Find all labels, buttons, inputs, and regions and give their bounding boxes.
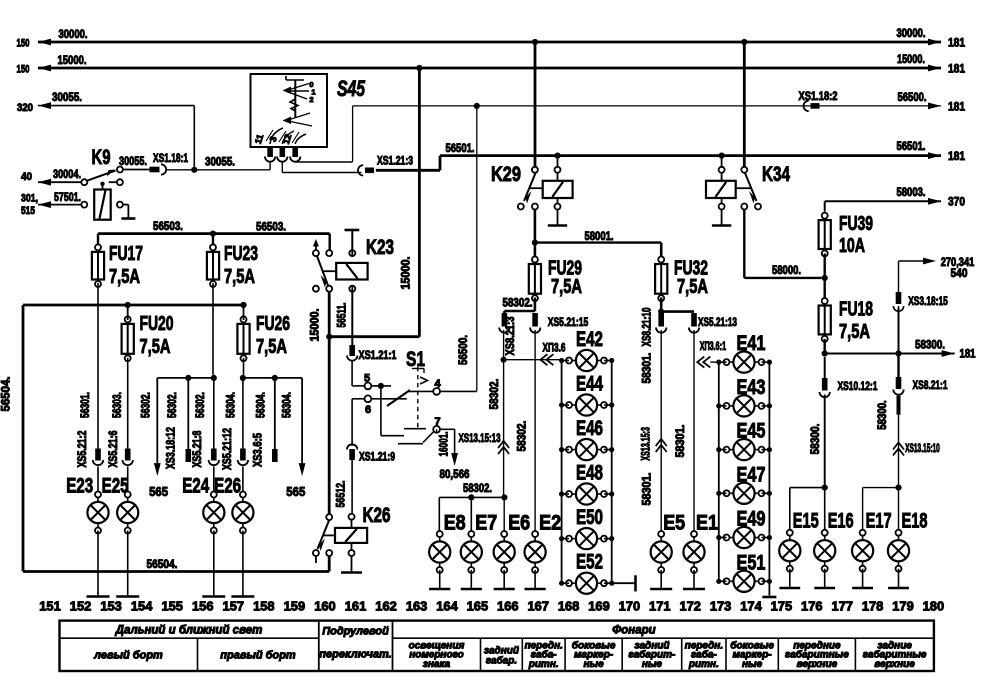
svg-text:Дальний и ближний свет: Дальний и ближний свет [115, 625, 263, 637]
svg-text:ные: ные [742, 659, 763, 670]
svg-text:58301.: 58301. [639, 473, 653, 506]
svg-text:174: 174 [740, 598, 762, 613]
svg-text:7,5A: 7,5A [839, 321, 870, 343]
svg-text:E43: E43 [737, 376, 766, 399]
svg-text:FU17: FU17 [109, 243, 143, 265]
svg-text:166: 166 [497, 598, 519, 613]
svg-text:58302.: 58302. [514, 421, 528, 452]
svg-text:E5: E5 [663, 512, 685, 535]
svg-text:ные: ные [584, 659, 605, 670]
svg-text:167: 167 [527, 598, 549, 613]
svg-text:Подрулевой: Подрулевой [322, 626, 389, 638]
svg-text:E49: E49 [737, 508, 766, 531]
svg-text:K34: K34 [762, 163, 790, 186]
svg-text:E48: E48 [576, 462, 603, 485]
svg-text:E41: E41 [737, 332, 766, 355]
svg-text:10A: 10A [839, 235, 865, 257]
svg-text:16001.: 16001. [437, 432, 451, 457]
svg-text:172: 172 [679, 598, 701, 613]
svg-text:540: 540 [951, 266, 968, 280]
svg-text:E16: E16 [828, 510, 854, 533]
svg-text:40: 40 [21, 171, 32, 183]
svg-text:XS1.18:2: XS1.18:2 [799, 89, 838, 103]
svg-text:56302.: 56302. [193, 392, 207, 418]
svg-text:E8: E8 [444, 512, 466, 535]
svg-text:56301.: 56301. [78, 392, 92, 418]
svg-text:158: 158 [253, 598, 275, 613]
svg-text:58000.: 58000. [772, 263, 801, 277]
svg-text:E24: E24 [182, 475, 209, 498]
svg-text:181: 181 [948, 100, 965, 114]
svg-text:7: 7 [434, 416, 440, 428]
svg-text:15000.: 15000. [58, 53, 87, 67]
svg-text:58300.: 58300. [915, 338, 945, 352]
svg-text:58301.: 58301. [673, 425, 687, 458]
svg-text:565: 565 [286, 484, 305, 499]
svg-text:E47: E47 [737, 463, 766, 486]
svg-text:E1: E1 [696, 512, 718, 535]
svg-text:E25: E25 [102, 475, 129, 498]
svg-text:171: 171 [649, 598, 671, 613]
svg-text:150: 150 [17, 64, 30, 76]
svg-text:301,: 301, [21, 193, 38, 205]
svg-text:K23: K23 [366, 236, 394, 259]
svg-text:E17: E17 [866, 510, 892, 533]
svg-text:155: 155 [161, 598, 183, 613]
svg-text:30055.: 30055. [119, 154, 147, 168]
svg-text:7,5A: 7,5A [677, 276, 708, 298]
svg-text:7,5A: 7,5A [551, 276, 582, 298]
svg-text:56500.: 56500. [456, 335, 470, 365]
svg-text:правый борт: правый борт [220, 650, 296, 662]
svg-text:320: 320 [17, 102, 33, 114]
svg-text:57501.: 57501. [54, 190, 81, 204]
svg-text:56302.: 56302. [139, 392, 153, 418]
svg-text:XS5.21:13: XS5.21:13 [698, 315, 737, 329]
svg-text:знака: знака [423, 659, 451, 670]
svg-text:159: 159 [284, 598, 306, 613]
svg-text:ритн.: ритн. [528, 659, 559, 670]
svg-text:56512.: 56512. [334, 481, 348, 508]
svg-text:163: 163 [406, 598, 428, 613]
svg-text:K29: K29 [491, 163, 521, 186]
svg-text:ХП3.6: ХП3.6 [543, 343, 566, 355]
svg-text:30000.: 30000. [897, 26, 926, 40]
svg-text:150: 150 [17, 38, 30, 50]
svg-text:175: 175 [771, 598, 793, 613]
svg-text:30055.: 30055. [52, 90, 82, 104]
svg-text:156: 156 [192, 598, 214, 613]
svg-text:2: 2 [309, 95, 313, 104]
svg-text:габар.: габар. [486, 655, 517, 667]
svg-text:FU39: FU39 [839, 213, 873, 235]
svg-text:XS10.12:1: XS10.12:1 [838, 379, 878, 393]
svg-text:верхние: верхние [797, 659, 838, 670]
svg-text:5: 5 [364, 373, 370, 385]
svg-text:E7: E7 [475, 512, 497, 535]
svg-text:58302.: 58302. [463, 481, 492, 495]
svg-text:E52: E52 [576, 551, 603, 574]
svg-text:30000.: 30000. [59, 27, 88, 41]
svg-text:56500.: 56500. [898, 90, 927, 104]
svg-text:56304.: 56304. [253, 392, 267, 418]
svg-text:XS1.21:1: XS1.21:1 [359, 348, 397, 362]
svg-text:169: 169 [588, 598, 610, 613]
svg-text:XS1.18:1: XS1.18:1 [153, 151, 188, 165]
svg-text:157: 157 [223, 598, 245, 613]
svg-text:15000.: 15000. [897, 52, 925, 66]
svg-text:164: 164 [436, 598, 458, 613]
svg-text:58301.: 58301. [639, 353, 653, 384]
svg-text:181: 181 [960, 347, 976, 361]
svg-text:XS5.21:6: XS5.21:6 [108, 431, 120, 468]
svg-text:XS5.21:12: XS5.21:12 [222, 428, 234, 470]
svg-text:FU23: FU23 [224, 243, 258, 265]
svg-text:176: 176 [801, 598, 823, 613]
svg-text:181: 181 [948, 62, 965, 76]
svg-text:XS8.21:1: XS8.21:1 [913, 378, 948, 392]
svg-text:E50: E50 [576, 506, 603, 529]
svg-text:56503.: 56503. [153, 219, 183, 233]
svg-text:58302.: 58302. [487, 379, 501, 410]
svg-text:58302.: 58302. [503, 296, 533, 310]
svg-text:56304.: 56304. [280, 392, 294, 418]
svg-text:XS1.21:9: XS1.21:9 [359, 450, 395, 464]
svg-text:левый борт: левый борт [93, 650, 163, 662]
svg-text:XS13.15:10: XS13.15:10 [905, 443, 940, 455]
svg-text:177: 177 [831, 598, 853, 613]
svg-text:E45: E45 [737, 420, 766, 443]
svg-text:168: 168 [558, 598, 580, 613]
svg-text:ные: ные [642, 659, 663, 670]
svg-text:S1: S1 [406, 348, 425, 371]
svg-text:E46: E46 [576, 417, 603, 440]
svg-text:80,566: 80,566 [440, 467, 470, 481]
svg-text:56303.: 56303. [110, 392, 124, 418]
svg-text:160: 160 [314, 598, 336, 613]
svg-text:370: 370 [948, 195, 965, 209]
svg-text:162: 162 [375, 598, 397, 613]
svg-text:15000.: 15000. [308, 309, 322, 342]
svg-text:565: 565 [149, 484, 168, 499]
svg-text:4: 4 [434, 378, 441, 390]
svg-text:178: 178 [862, 598, 884, 613]
svg-text:E51: E51 [737, 551, 766, 574]
svg-text:151: 151 [39, 598, 61, 613]
svg-text:6: 6 [365, 404, 371, 416]
svg-text:58001.: 58001. [585, 229, 614, 243]
svg-text:56302.: 56302. [165, 392, 179, 418]
svg-text:170: 170 [619, 598, 641, 613]
svg-text:30004.: 30004. [53, 167, 81, 181]
svg-text:161: 161 [345, 598, 367, 613]
svg-text:XS3.18:12: XS3.18:12 [166, 427, 178, 469]
svg-text:Фонари: Фонари [612, 625, 655, 637]
svg-text:XS8.21:10: XS8.21:10 [641, 308, 653, 347]
svg-text:XS5.21:8: XS5.21:8 [192, 430, 204, 467]
svg-text:E15: E15 [793, 510, 819, 533]
svg-text:56504.: 56504. [0, 377, 13, 412]
svg-text:56501.: 56501. [897, 139, 926, 153]
svg-text:XS5.21:2: XS5.21:2 [77, 431, 89, 468]
svg-text:FU18: FU18 [839, 299, 873, 321]
svg-text:173: 173 [710, 598, 732, 613]
svg-text:E42: E42 [576, 328, 603, 351]
svg-text:E26: E26 [214, 475, 241, 498]
svg-text:181: 181 [948, 36, 965, 50]
svg-text:153: 153 [100, 598, 122, 613]
svg-text:181: 181 [948, 149, 965, 163]
svg-text:180: 180 [923, 598, 945, 613]
svg-text:15000.: 15000. [399, 257, 413, 290]
svg-text:56511.: 56511. [335, 303, 349, 328]
svg-text:XS3.6:5: XS3.6:5 [253, 433, 265, 467]
svg-text:30055.: 30055. [205, 155, 235, 169]
svg-text:515: 515 [21, 205, 35, 217]
svg-text:179: 179 [892, 598, 914, 613]
svg-text:XS3.18:15: XS3.18:15 [908, 294, 948, 308]
svg-text:K9: K9 [92, 146, 111, 169]
svg-text:FU20: FU20 [140, 313, 174, 335]
svg-text:7,5A: 7,5A [140, 336, 171, 358]
svg-text:58003.: 58003. [897, 185, 926, 199]
svg-text:154: 154 [131, 598, 153, 613]
svg-text:152: 152 [70, 598, 92, 613]
svg-text:верхние: верхние [874, 659, 915, 670]
svg-text:FU26: FU26 [256, 313, 290, 335]
svg-text:58300.: 58300. [808, 424, 822, 455]
svg-text:XS5.21:15: XS5.21:15 [548, 315, 589, 329]
svg-text:E18: E18 [902, 510, 928, 533]
svg-text:ритн.: ритн. [688, 659, 719, 670]
svg-text:K26: K26 [363, 504, 391, 527]
svg-text:7,5A: 7,5A [224, 266, 255, 288]
svg-text:S45: S45 [337, 76, 366, 101]
svg-text:7,5A: 7,5A [256, 336, 287, 358]
svg-text:56503.: 56503. [256, 220, 286, 234]
svg-text:XS1.21:3: XS1.21:3 [377, 154, 413, 168]
svg-text:7,5A: 7,5A [109, 266, 140, 288]
svg-text:ХП3.6:1: ХП3.6:1 [700, 341, 727, 353]
svg-text:переключат.: переключат. [319, 649, 391, 661]
svg-text:XS13.15:3: XS13.15:3 [641, 427, 653, 461]
svg-text:E44: E44 [576, 373, 603, 396]
svg-text:XS8.21:3: XS8.21:3 [505, 317, 517, 356]
svg-text:E23: E23 [66, 475, 93, 498]
svg-text:XS13.15:13: XS13.15:13 [459, 431, 501, 445]
svg-text:58300.: 58300. [875, 400, 889, 430]
svg-text:E6: E6 [508, 512, 530, 535]
svg-text:165: 165 [467, 598, 489, 613]
svg-text:56501.: 56501. [446, 141, 475, 155]
svg-text:56304.: 56304. [223, 392, 237, 418]
svg-text:E2: E2 [539, 512, 561, 535]
svg-text:56504.: 56504. [147, 557, 178, 571]
